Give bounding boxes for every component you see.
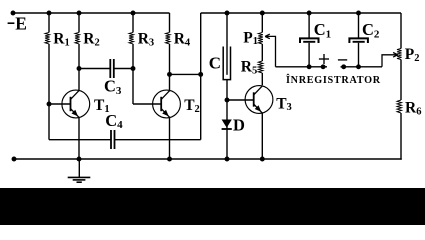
node T2 collector junction [167,72,172,77]
resistor R3 [129,32,134,44]
wire C4 riser vertical [200,13,202,140]
wire T3 collector up to R5 [261,73,263,85]
capacitor C2 [349,38,368,43]
wire T3 base lead [227,99,254,101]
capacitor C4 [110,130,112,149]
wire R3 top [132,13,134,32]
node C1 top junction [307,11,312,16]
wire recorder line right [341,66,383,68]
node C1 bottom junction [307,64,312,69]
wire top rail right [201,12,401,14]
wire R4 bottom to T2 collector [169,44,171,91]
wire R6 to bottom rail [400,113,402,160]
node C2 top junction [356,11,361,16]
node R1 top junction [47,11,52,16]
wire T2 collector to C4 riser [170,73,201,75]
wire P1 to R5 [261,44,263,61]
node T3 base junction [225,98,230,103]
label -E [8,22,15,24]
node D bottom junction [225,157,230,162]
wire bottom rail [14,158,402,160]
node bottom rail left terminal [12,157,17,162]
wire C4 right lead [115,139,201,141]
node recorder - terminal [341,64,346,69]
wire C1 bottom lead [308,43,310,67]
capacitor C cup [223,47,230,80]
wire T1 emitter down [78,118,80,159]
wire R2 bottom to T1 collector [78,44,80,91]
node R3 top junction [131,11,136,16]
svg-text:D: D [233,115,245,134]
resistor R6 [397,100,402,113]
black bottom bar [0,188,425,225]
node recorder + terminal [321,64,326,69]
wire R1 top [48,13,50,32]
wire C3 left lead [79,68,110,70]
capacitor C3 [109,59,111,78]
wire C2 top lead [358,13,360,38]
wire P1 wiper arm [265,34,275,67]
resistor R2 [75,32,80,44]
node C2 bottom junction [356,64,361,69]
resistor R1 [45,32,50,44]
node R2 top junction [77,11,82,16]
node C3 left junction [77,66,82,71]
wire P2 wiper arm [382,53,398,67]
svg-text:ÎNREGISTRATOR: ÎNREGISTRATOR [286,74,381,86]
wire top rail left (-E rail) [13,12,170,14]
transistor T2 [153,90,181,118]
resistor R5 [258,61,263,73]
wire R2 top [78,13,80,32]
wire capacitor C top lead [226,13,228,75]
node C3 right junction [131,66,136,71]
node T2 emitter junction [167,157,172,162]
node T1 emitter / ground junction [77,157,82,162]
transistor T1 [62,90,90,118]
wire T2 emitter down [169,118,171,159]
potentiometer P1 [258,32,263,44]
wire T3 emitter down [261,113,263,159]
wire C bottom lead [226,80,228,159]
label + polarity [319,58,329,60]
ground [78,159,80,177]
node C top junction [225,11,230,16]
node C4 riser junction [198,72,203,77]
node T3 emitter junction [260,157,265,162]
wire R4 top [169,13,171,32]
wire P2 to R6 [400,60,402,101]
label - polarity [338,59,347,61]
wire right vertical top [400,13,402,49]
wire C4 left lead [49,139,111,141]
wire recorder line left [276,66,328,68]
transistor T3 [245,86,273,114]
node T1 base junction [47,102,52,107]
wire R1 bottom to C4 corner [48,44,50,140]
svg-text:C: C [209,53,221,72]
wire T1 base lead [49,103,71,105]
wire C1 top lead [308,13,310,38]
potentiometer P2 [397,49,402,60]
wire R3 bottom to T2 base [132,44,134,104]
capacitor C1 [300,38,319,43]
node -E terminal [11,11,16,16]
resistor R4 [166,32,171,44]
wire C2 bottom lead [358,43,360,67]
node P1 top junction [260,11,265,16]
svg-text:E: E [15,14,27,34]
diode D [222,120,232,128]
wire P1 top [261,13,263,32]
wire C3 right lead [114,68,133,70]
